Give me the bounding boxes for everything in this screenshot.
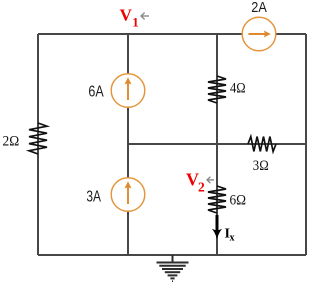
arrow V2 ref [207, 177, 214, 183]
label V1 [120, 5, 139, 29]
wire top-right segment [276, 33, 306, 35]
svg-text:6A: 6A [88, 84, 104, 101]
current source I2 3A [111, 178, 145, 212]
resistor R 3ohm [248, 137, 276, 152]
svg-text:x: x [230, 233, 235, 244]
wire right [305, 34, 307, 255]
label Ix [225, 227, 235, 244]
svg-text:1: 1 [132, 14, 139, 29]
svg-text:2Ω: 2Ω [3, 134, 20, 150]
svg-text:3A: 3A [86, 189, 101, 206]
wire bottom [38, 254, 306, 256]
svg-text:6Ω: 6Ω [230, 192, 247, 208]
resistor R 4ohm [208, 76, 226, 103]
wire middle horizontal [128, 143, 306, 145]
svg-text:3Ω: 3Ω [253, 158, 269, 174]
current source I3 2A [242, 17, 276, 51]
svg-text:V: V [120, 5, 133, 24]
ground [157, 255, 189, 281]
svg-text:4Ω: 4Ω [230, 80, 246, 96]
current arrow Ix [212, 215, 222, 239]
svg-text:2: 2 [198, 180, 205, 195]
wire top-left segment [38, 33, 242, 35]
arrow V1 ref [141, 13, 149, 20]
label V2 [186, 169, 205, 194]
svg-text:2A: 2A [251, 0, 266, 16]
wire middle vertical B [216, 34, 218, 255]
wire left [37, 34, 39, 255]
resistor R 2ohm [29, 123, 47, 154]
wire middle vertical A [127, 34, 129, 255]
current source I1 6A [111, 74, 145, 108]
resistor R 6ohm [208, 186, 226, 213]
